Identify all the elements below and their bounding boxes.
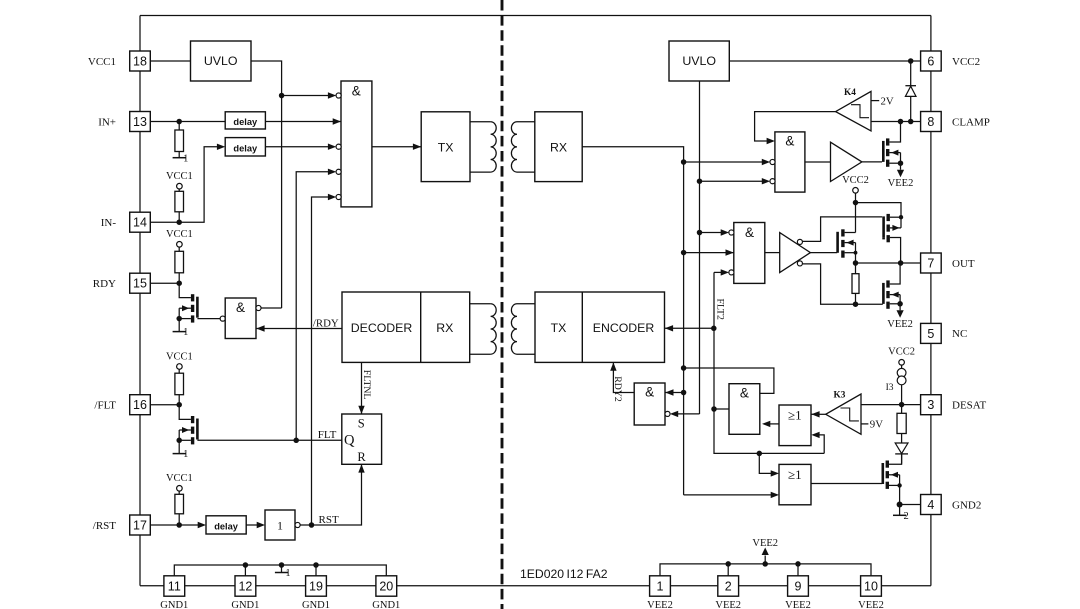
wire buffer to Q3 gate (862, 161, 882, 163)
svg-text:3: 3 (927, 398, 934, 412)
transistor Q5 (source follower NMOS) (838, 229, 856, 257)
svg-text:NC: NC (952, 328, 967, 340)
svg-text:&: & (745, 225, 754, 240)
wire AND in4 (FLT) (296, 169, 341, 441)
svg-text:10: 10 (864, 579, 878, 593)
supply VCC1 (/FLT pull-up) (166, 351, 193, 369)
block DECODER / RX (342, 292, 470, 362)
wire VEE2 bus (660, 564, 871, 576)
svg-text:&: & (785, 133, 794, 148)
resistor R1 (IN+ pull-down) (175, 122, 184, 152)
junction /FLT node (176, 402, 182, 408)
supply VCC2 (output stage) (842, 175, 869, 193)
svg-text:VCC2: VCC2 (842, 175, 869, 186)
junction Q2 source-body (176, 438, 182, 444)
svg-text:4: 4 (927, 498, 934, 512)
svg-text:DESAT: DESAT (952, 400, 987, 412)
block UVLO (input side) U1 (191, 41, 252, 81)
junction RX line to clamp AND (681, 159, 687, 165)
wire UVLO2 output down (699, 81, 701, 414)
junction R6 to Q6 gate line (853, 301, 859, 307)
transistor Q1 (RDY open-drain) (179, 283, 197, 322)
svg-text:2V: 2V (881, 95, 894, 107)
wire /RST pin to delay t3 (150, 522, 206, 528)
svg-text:&: & (645, 385, 654, 400)
current-source I3 (886, 365, 906, 405)
wire clamp AND in3 (700, 178, 776, 184)
wire RDY pin to node (150, 282, 179, 284)
wire OUT node to pin7 (856, 262, 921, 264)
junction VEE2 bus stub (762, 561, 768, 567)
svg-text:VEE2: VEE2 (715, 600, 741, 609)
supply VCC1 (RDY pull-up) (166, 229, 193, 247)
wire /RDY from DECODER to NAND (256, 325, 342, 331)
block RX (signal receiver) (535, 112, 582, 182)
and-gate U2 (main input AND) (341, 81, 372, 207)
svg-text:VEE2: VEE2 (858, 600, 884, 609)
svg-text:≥1: ≥1 (788, 408, 802, 423)
latch U5 (SR fault latch) (342, 414, 382, 464)
junction RDY node (176, 280, 182, 286)
pin 4 GND2 (921, 495, 982, 515)
wire AND in2 (IN+ delayed) (265, 118, 341, 124)
svg-text:&: & (236, 300, 245, 315)
svg-text:VEE2: VEE2 (785, 600, 811, 609)
svg-text:9V: 9V (870, 419, 883, 431)
svg-text:12: 12 (238, 579, 252, 593)
block TX / ENCODER (535, 292, 665, 362)
svg-text:5: 5 (927, 327, 934, 341)
wire K3 input from DESAT node (861, 404, 921, 406)
wire driver pull-down path (to Q6 gate) (802, 264, 883, 304)
wire driver to Q5 gate (810, 252, 837, 254)
ground 1 (R1) (173, 152, 189, 165)
svg-text:CLAMP: CLAMP (952, 116, 990, 128)
svg-text:OUT: OUT (952, 258, 975, 270)
coil T2 secondary (511, 304, 535, 354)
junction VEE2 bus pin2 (725, 561, 731, 567)
pin 17 /RST (93, 515, 151, 535)
inverter U4 (RST) (265, 510, 295, 540)
and-gate U12 (DESAT blanking) (729, 384, 760, 435)
wire output AND in2 (684, 249, 734, 255)
wire AND in1 (UVLO) (282, 92, 342, 98)
svg-text:13: 13 (133, 115, 147, 129)
junction DESAT node (899, 402, 905, 408)
and-gate U9 (output) (734, 223, 765, 284)
wire RDY2 to ENCODER (610, 362, 634, 392)
label 1ED020I12FA2 (520, 567, 608, 581)
wire K4 input from CLAMP pin (871, 121, 921, 123)
junction Q4 source (899, 215, 903, 219)
wire clamp AND to buffer (805, 161, 831, 163)
junction GND2 node (897, 502, 903, 508)
pin 15 RDY (93, 273, 151, 293)
pin 3 DESAT (921, 395, 987, 415)
wire IN+ to delay (150, 121, 225, 123)
wire DESAT AND in1 (gate signal) (684, 368, 774, 393)
wire GND2 node to pin4 (900, 504, 921, 506)
coil T1 primary (470, 122, 496, 172)
svg-text:VCC1: VCC1 (166, 229, 193, 240)
svg-text:11: 11 (168, 579, 181, 593)
resistor R5 (/RST pull-up) (175, 491, 184, 525)
wire FLTNL (DECODER to latch S) (358, 362, 364, 414)
svg-text:16: 16 (133, 398, 147, 412)
ground 1 (GND1 bus) (275, 565, 291, 579)
svg-text:VCC1: VCC1 (88, 56, 116, 68)
svg-text:ENCODER: ENCODER (593, 321, 655, 335)
label FLTNL (361, 370, 372, 400)
pin 6 VCC2 (921, 51, 981, 71)
pin 12 GND1 (231, 576, 259, 609)
svg-text:IN+: IN+ (98, 116, 116, 128)
junction /RST node (176, 522, 182, 528)
buffer U10 (gate driver) (780, 233, 811, 273)
wire K4 reference 2V (871, 95, 894, 107)
wire VCC2 to Q4/Q5 drains (856, 193, 902, 233)
pin 2 VEE2 (715, 576, 741, 609)
junction RX line to DESAT AND (681, 365, 687, 371)
transistor Q7 (DESAT discharge NMOS) (883, 454, 902, 489)
wire RST net (inverter to latch R) (295, 464, 365, 527)
wire RX output down (582, 147, 683, 495)
svg-text:19: 19 (309, 579, 323, 593)
junction FLT2 to ENCODER (711, 326, 717, 332)
svg-text:20: 20 (379, 579, 393, 593)
supply VEE2 (Q6 source) (887, 304, 913, 330)
ground 2 (GND2) (893, 505, 909, 522)
delay block t1 (IN+) (225, 112, 265, 129)
wire output AND in1 (700, 229, 734, 235)
pin 14 IN- (101, 212, 151, 232)
wire FLT net (latch Q to Q2 gate) (197, 439, 341, 441)
wire OR2 in2 (RX line) (684, 492, 779, 498)
junction CLAMP Q3 drain (898, 119, 904, 125)
wire left IC boundary (139, 16, 141, 586)
svg-text:1: 1 (657, 579, 664, 593)
junction VCC2 diode tap (908, 58, 914, 64)
junction Q7 source-body (897, 483, 901, 487)
svg-text:FLT2: FLT2 (714, 299, 725, 321)
junction VEE2 bus pin9 (795, 561, 801, 567)
svg-text:17: 17 (133, 518, 147, 532)
wire Q7 source to GND2 (899, 485, 901, 504)
wire DESAT AND in2 (from OR1) (762, 421, 779, 427)
pin 7 OUT (921, 253, 975, 273)
ground 1 (Q2 source) (173, 440, 189, 460)
junction Q1 source-body (176, 316, 182, 322)
comparator K4 (CLAMP 2V) (836, 88, 871, 131)
wire AND output to TX (372, 144, 421, 150)
svg-text:1: 1 (183, 449, 188, 460)
svg-text:FLT: FLT (318, 429, 337, 441)
diode D2 (DESAT) (895, 443, 908, 464)
svg-text:K4: K4 (844, 88, 856, 98)
wire /FLT pin to node (150, 404, 179, 406)
wire GND1 bus (174, 565, 386, 576)
wire IN- to delay t2 (150, 144, 225, 223)
wire clamp AND in2 (684, 159, 775, 165)
coil T1 secondary (511, 122, 535, 172)
wire OR1 in2 (feedback) (811, 432, 824, 454)
wire delay t3 to inverter (246, 522, 265, 528)
block TX (signal transmitter) (421, 112, 470, 182)
svg-text:TX: TX (551, 321, 567, 335)
pin 20 GND1 (372, 576, 400, 609)
svg-text:delay: delay (233, 117, 258, 127)
junction FLT2 to DESAT AND output (711, 406, 717, 412)
comparator K3 (DESAT 9V) (826, 390, 861, 434)
svg-text:1ED020 I12 FA2: 1ED020 I12 FA2 (520, 567, 608, 581)
junction UVLO2 to output AND (697, 230, 703, 236)
wire driver pull-up path (to Q4 gate) (802, 217, 882, 242)
junction RX line to output AND (681, 250, 687, 256)
pin 13 IN+ (98, 112, 150, 132)
svg-text:GND1: GND1 (302, 600, 330, 609)
coil T2 primary (470, 304, 496, 354)
buffer U8 (clamp driver) (831, 142, 862, 181)
junction Q5 source-body (854, 251, 858, 255)
pin 5 NC (921, 323, 968, 343)
transistor Q4 (pull-up PMOS) (884, 214, 901, 263)
svg-text:GND1: GND1 (160, 600, 188, 609)
svg-text:6: 6 (927, 54, 934, 68)
svg-text:I3: I3 (886, 383, 894, 393)
transistor Q3 (active Miller clamp NMOS) (883, 122, 900, 167)
svg-text:18: 18 (133, 54, 147, 68)
wire AND in3 (IN- delayed) (265, 144, 341, 150)
label FLT (318, 429, 337, 441)
block UVLO (output side) U6 (669, 41, 729, 81)
wire RDY NAND output (bubble) to UVLO node (256, 305, 282, 310)
label RST (319, 514, 339, 526)
junction UVLO2 to clamp AND (697, 178, 703, 184)
svg-text:VCC1: VCC1 (166, 473, 193, 484)
wire output AND to driver (765, 252, 780, 254)
wire top IC boundary (140, 15, 931, 17)
wire FLT2 net (714, 272, 824, 453)
junction UVLO line to AND input 1 (279, 93, 285, 99)
junction GND1 bus pin19 (313, 562, 319, 568)
svg-text:VCC2: VCC2 (888, 346, 915, 357)
svg-text:7: 7 (927, 256, 934, 270)
wire right IC boundary (930, 16, 932, 586)
svg-text:VEE2: VEE2 (888, 178, 914, 189)
supply VCC1 (/RST pull-up) (166, 473, 193, 491)
wire UVLO2 to VCC2 pin6 (729, 60, 920, 62)
resistor R4 (/FLT pull-up) (175, 369, 184, 405)
resistor R3 (RDY pull-up) (175, 247, 184, 283)
pin 10 VEE2 (858, 576, 884, 609)
supply VEE2 (Q3 source) (888, 163, 914, 189)
nand-gate U3 (RDY) (225, 298, 256, 339)
wire output AND in3 (FLT2) (714, 269, 734, 275)
svg-text:RDY: RDY (93, 278, 116, 290)
wire RDY2 AND in1 (665, 389, 683, 395)
svg-text:delay: delay (214, 522, 239, 532)
svg-text:/FLT: /FLT (94, 400, 116, 412)
svg-text:RST: RST (319, 514, 339, 526)
svg-text:VEE2: VEE2 (887, 319, 913, 330)
transistor Q2 (/FLT open-drain) (179, 405, 197, 445)
wire DESAT AND output to FLT2 (714, 408, 729, 410)
ground 1 (Q1 source) (173, 319, 189, 339)
and-gate U11 (RDY2) (634, 383, 665, 425)
junction FLT to AND in4 (293, 438, 299, 444)
junction Q3 source-body (898, 160, 904, 166)
resistor R6 (gate resistor) (852, 263, 859, 304)
svg-text:GND1: GND1 (372, 600, 400, 609)
junction RX line to RDY2 AND (681, 390, 687, 396)
supply VEE2 (bus) (752, 538, 778, 564)
supply VCC1 (IN- pull-up) (166, 171, 193, 189)
pin 9 VEE2 (785, 576, 811, 609)
wire bottom IC boundary (140, 585, 931, 587)
svg-text:1: 1 (183, 153, 188, 164)
svg-text:RX: RX (550, 140, 567, 154)
wire UVLO output to main AND and RDY NAND output node (251, 61, 282, 308)
svg-text:1: 1 (285, 568, 290, 579)
wire Q1 gate to NAND input (197, 316, 225, 321)
junction GND1 bus pin12 (243, 562, 249, 568)
wire VCC1 pin18 to UVLO (150, 60, 190, 62)
or-gate U14 (DESAT drive OR) (779, 464, 811, 504)
svg-text:S: S (358, 416, 365, 430)
delay block t3 (/RST) (206, 516, 246, 534)
junction GND1 bus ground (279, 562, 285, 568)
svg-text:K3: K3 (834, 390, 846, 400)
svg-text:/RDY: /RDY (313, 318, 339, 330)
delay block t2 (IN-) (225, 138, 265, 156)
wire K3 reference 9V (861, 419, 883, 431)
or-gate U13 (DESAT latch OR) (779, 405, 811, 446)
junction CLAMP diode (908, 119, 914, 125)
resistor R2 (IN- pull-up) (175, 189, 184, 223)
svg-text:R: R (357, 450, 366, 464)
junction RST to AND in5 (309, 522, 315, 528)
wire RDY2 AND in2 (UVLO2) (665, 411, 700, 417)
svg-text:8: 8 (927, 115, 934, 129)
junction IN+ node (176, 119, 182, 125)
pin 8 CLAMP (921, 112, 990, 132)
svg-text:GND1: GND1 (231, 600, 259, 609)
svg-text:1: 1 (277, 519, 283, 533)
resistor R7 (DESAT filter) (897, 405, 906, 443)
pin 16 /FLT (94, 395, 150, 415)
junction IN- node (176, 219, 182, 225)
svg-text:delay: delay (233, 143, 258, 153)
svg-text:VCC2: VCC2 (952, 56, 980, 68)
svg-text:VEE2: VEE2 (647, 600, 673, 609)
svg-text:14: 14 (133, 216, 147, 230)
junction Q6 source-body (897, 301, 903, 307)
svg-text:UVLO: UVLO (204, 54, 238, 68)
svg-text:≥1: ≥1 (788, 467, 802, 482)
isolation barrier (galvanic separation dashed line) (501, 0, 504, 609)
junction FLT2 to OR2 (757, 451, 763, 457)
svg-text:RX: RX (436, 321, 453, 335)
svg-text:&: & (352, 84, 361, 99)
svg-text:/RST: /RST (93, 520, 117, 532)
svg-text:FLTNL: FLTNL (361, 370, 372, 400)
transistor Q6 (pull-down NMOS) (883, 263, 900, 309)
svg-text:RDY2: RDY2 (612, 376, 623, 402)
diode D1 (CLAMP to VCC2) (905, 61, 916, 122)
label /RDY (313, 318, 339, 330)
wire K4 output to clamp AND (755, 112, 836, 145)
wire AND in5 (RST) (312, 194, 342, 525)
svg-text:UVLO: UVLO (682, 54, 716, 68)
junction OUT node resistor (853, 260, 859, 266)
svg-text:15: 15 (133, 277, 147, 291)
svg-text:VCC1: VCC1 (166, 351, 193, 362)
junction OUT node Q4/Q6 drains (898, 260, 904, 266)
and-gate U7 (clamp) (775, 132, 805, 192)
wire OR2 output to Q7 gate (811, 483, 882, 485)
svg-text:2: 2 (903, 511, 908, 522)
svg-text:9: 9 (795, 579, 802, 593)
pin 18 VCC1 (88, 51, 150, 71)
junction VCC2 node (853, 200, 859, 206)
wire OR1 in1 (K3) (811, 411, 825, 417)
svg-text:Q: Q (344, 433, 355, 449)
svg-text:VEE2: VEE2 (752, 538, 778, 549)
pin 19 GND1 (302, 576, 330, 609)
label RDY2 (612, 376, 623, 402)
svg-text:1: 1 (183, 327, 188, 338)
supply VCC2 (DESAT) (888, 346, 915, 365)
svg-text:IN-: IN- (101, 217, 117, 229)
svg-text:&: & (740, 385, 749, 400)
wire OR2 in1 (759, 453, 779, 476)
pin 11 GND1 (160, 576, 188, 609)
wire ENCODER fault input (665, 325, 714, 331)
label FLT2 (714, 299, 725, 321)
svg-text:TX: TX (438, 140, 454, 154)
svg-text:VCC1: VCC1 (166, 171, 193, 182)
svg-text:DECODER: DECODER (351, 321, 413, 335)
svg-text:GND2: GND2 (952, 499, 981, 511)
pin 1 VEE2 (647, 576, 673, 609)
svg-text:2: 2 (725, 579, 732, 593)
wire Q5 source to OUT node (855, 253, 857, 263)
